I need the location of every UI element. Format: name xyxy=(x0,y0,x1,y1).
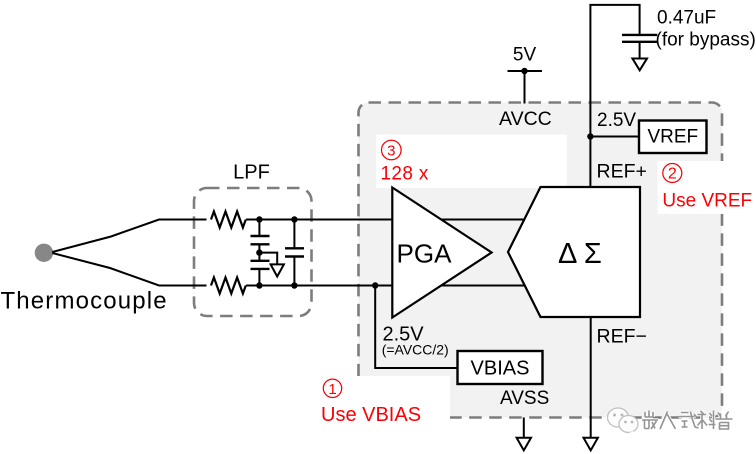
capacitor C3 (shunt) xyxy=(285,220,304,286)
capacitor C2 (lower differential) xyxy=(251,261,270,286)
VBIAS box U4 xyxy=(458,351,543,384)
svg-text:VREF: VREF xyxy=(647,127,698,148)
VREF box U2 xyxy=(639,121,707,154)
wire REF+ net to bypass cap xyxy=(590,5,639,137)
svg-text:REF+: REF+ xyxy=(597,161,647,183)
svg-text:2.5V: 2.5V xyxy=(597,110,636,131)
annotation circled 1 xyxy=(323,379,341,398)
wire lower input xyxy=(52,253,206,286)
capacitor C1 (upper differential) xyxy=(251,220,270,261)
wire REF- to ground xyxy=(590,317,592,438)
resistor R1 xyxy=(211,212,246,228)
ground (AVSS) xyxy=(517,438,531,451)
white patch behind gain annotation xyxy=(376,135,567,189)
op-amp PGA U1 xyxy=(392,188,491,318)
svg-text:LPF: LPF xyxy=(233,162,270,184)
wire upper input xyxy=(52,220,206,253)
node lower-left junction xyxy=(256,282,262,288)
annotation circled 2 xyxy=(663,164,682,183)
wire upper to PGA xyxy=(246,219,540,221)
svg-text:AVSS: AVSS xyxy=(500,388,549,409)
wire AVSS to ground xyxy=(523,418,525,438)
capacitor C4 0.47uF bypass xyxy=(622,35,657,59)
white patch behind Use VREF annotation xyxy=(658,161,733,214)
wire to LPF ground xyxy=(259,253,277,265)
svg-text:(=AVCC/2): (=AVCC/2) xyxy=(382,342,449,358)
svg-text:(for bypass): (for bypass) xyxy=(656,30,756,51)
svg-text:128 x: 128 x xyxy=(381,163,429,184)
node REF+ junction xyxy=(587,133,593,139)
wire VBIAS feed xyxy=(375,286,457,369)
wire lower to PGA xyxy=(246,285,540,287)
node mid-cap junction xyxy=(256,249,262,255)
ground (bypass cap) xyxy=(632,59,647,71)
thermocouple junction xyxy=(35,244,53,262)
svg-text:Δ Σ: Δ Σ xyxy=(558,238,602,270)
svg-text:5V: 5V xyxy=(513,45,537,66)
svg-text:2: 2 xyxy=(668,166,677,183)
5V supply terminal xyxy=(508,68,543,104)
svg-text:0.47uF: 0.47uF xyxy=(657,8,716,29)
wire to VREF box xyxy=(590,136,639,138)
LPF dashed box xyxy=(194,188,312,316)
wire REF+ into modulator xyxy=(589,137,591,189)
svg-text:3: 3 xyxy=(387,142,395,159)
annotation circled 3 xyxy=(382,140,402,160)
white patch over box bottom-left corner (behind Use VBIAS) xyxy=(295,376,450,438)
node PGA input junction xyxy=(372,282,378,288)
watermark text (stylized CJK strokes) xyxy=(642,411,733,430)
svg-text:REF−: REF− xyxy=(597,326,647,348)
svg-text:Thermocouple: Thermocouple xyxy=(1,288,168,315)
svg-text:Use VBIAS: Use VBIAS xyxy=(321,404,421,426)
ADC chip dashed boundary box xyxy=(359,103,723,418)
svg-text:Use VREF: Use VREF xyxy=(662,190,752,211)
node upper-right junction xyxy=(291,216,297,222)
ground (LPF mid) xyxy=(271,264,284,276)
node lower-right junction xyxy=(291,282,297,288)
resistor R2 xyxy=(211,278,246,294)
ground (REF-) xyxy=(584,438,598,451)
svg-text:VBIAS: VBIAS xyxy=(471,358,530,380)
svg-text:AVCC: AVCC xyxy=(499,108,552,130)
svg-text:PGA: PGA xyxy=(397,238,453,268)
delta-sigma modulator U3 xyxy=(508,187,640,317)
node upper-left junction xyxy=(256,216,262,222)
svg-text:1: 1 xyxy=(328,381,336,398)
watermark logo xyxy=(608,408,639,435)
